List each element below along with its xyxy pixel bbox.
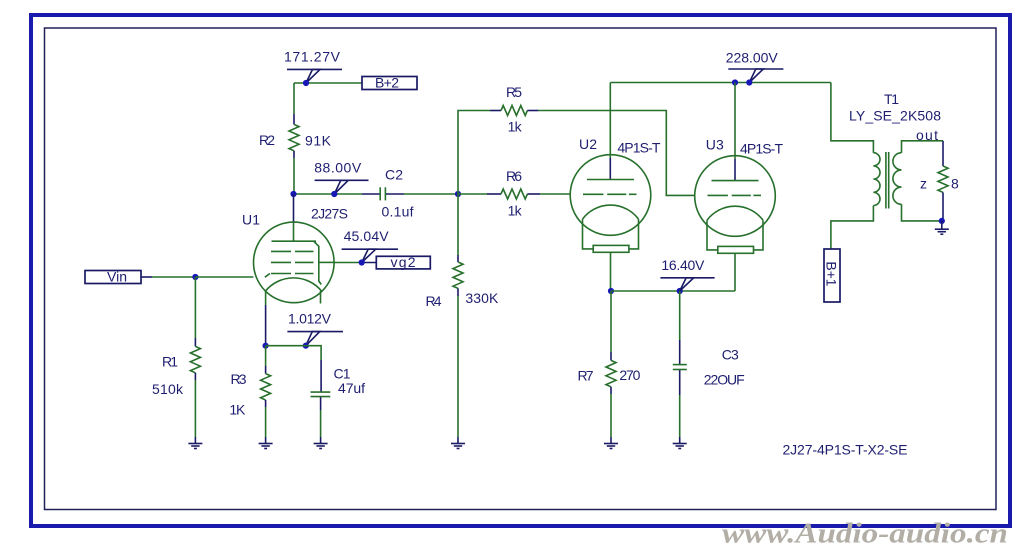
probe 1.012V line — [287, 331, 343, 333]
capacitor C2 plates — [379, 187, 381, 200]
wire Vin to node — [141, 276, 152, 278]
net label box B+2 — [362, 77, 417, 90]
wire from B+2 corner down to R2 — [293, 83, 295, 114]
resistor R5 lead left — [490, 110, 501, 112]
svg-text:R3: R3 — [231, 371, 247, 387]
probe 171.27V line — [287, 68, 342, 70]
tube U3 grid dashes — [708, 194, 728, 196]
svg-text:47uf: 47uf — [338, 380, 365, 396]
tube U1 plate — [293, 222, 295, 241]
svg-text:16.40V: 16.40V — [661, 257, 705, 273]
capacitor C1 lead bottom — [320, 397, 322, 410]
probe 16.40V line — [660, 277, 714, 279]
probe 16.40V flag — [680, 278, 694, 291]
svg-text:R1: R1 — [162, 354, 178, 370]
svg-text:45.04V: 45.04V — [344, 228, 390, 244]
wire vg2 — [334, 262, 359, 264]
resistor R6 lead left — [458, 193, 487, 195]
node dot 88.00V — [331, 191, 337, 197]
wire primary bottom to B+1 — [831, 206, 874, 250]
svg-text:R5: R5 — [506, 84, 522, 100]
resistor R2 lead top — [293, 114, 295, 124]
svg-text:270: 270 — [619, 367, 640, 383]
tube U3 plate lead from rail — [734, 83, 736, 160]
tube U1 envelope circle — [253, 222, 334, 303]
wire R6 to U2 grid — [540, 193, 570, 195]
tube U2 filament box — [593, 245, 629, 252]
capacitor C1 lead top — [320, 360, 322, 392]
resistor R4 lead top — [457, 255, 459, 262]
tube U1 plate lead from node — [293, 194, 295, 222]
tube U1 grid dashes row3 — [271, 273, 291, 275]
resistor R4 330K zigzag — [453, 262, 463, 288]
tube U3 cathode lead down — [734, 253, 736, 291]
resistor R5 1k zigzag — [501, 106, 527, 116]
svg-text:2J27S: 2J27S — [311, 206, 348, 222]
svg-text:2J27-4P1S-T-X2-SE: 2J27-4P1S-T-X2-SE — [783, 442, 908, 458]
tube U2 filament side leads — [583, 219, 594, 249]
svg-text:B+1: B+1 — [824, 261, 840, 286]
probe 88.00V flag — [334, 180, 348, 194]
probe 228.00V line — [728, 68, 783, 70]
wire C1 to ground — [320, 410, 322, 437]
resistor R3 lead top — [265, 346, 267, 366]
svg-text:out: out — [916, 127, 938, 143]
transformer T1 primary winding — [873, 153, 880, 206]
svg-text:Vin: Vin — [107, 269, 127, 285]
resistor R6 lead right — [527, 193, 540, 195]
tube U1 grid dashes row2 — [271, 261, 291, 263]
probe 1.012V flag — [306, 332, 320, 346]
svg-text:1.012V: 1.012V — [288, 311, 332, 327]
node dot 1.012V — [303, 343, 309, 349]
probe 228.00V flag — [749, 69, 763, 83]
node dot U3 plate — [732, 79, 738, 85]
svg-text:U3: U3 — [706, 137, 724, 153]
svg-text:z: z — [920, 176, 927, 192]
node dot C3 — [677, 288, 683, 294]
node dot R4 column — [455, 191, 461, 197]
node dot R7 — [608, 288, 614, 294]
tube U2 plate — [587, 179, 634, 181]
net label box vg2 — [376, 256, 430, 269]
svg-text:T1: T1 — [884, 91, 899, 107]
net label box Vin — [85, 271, 141, 284]
svg-text:510k: 510k — [152, 381, 184, 397]
tube U1 beam plate bracket — [314, 242, 321, 285]
node dot secondary ground — [939, 218, 945, 224]
ground under R7 — [604, 437, 618, 449]
tube U1 screen exit wire — [319, 261, 335, 263]
ground under R4 — [451, 437, 465, 449]
wire C2 to R4 node — [404, 193, 458, 195]
resistor R3 lead bottom — [265, 400, 267, 407]
svg-text:91K: 91K — [305, 133, 332, 149]
tube U2 plate lead from rail — [609, 83, 611, 159]
svg-text:0.1uf: 0.1uf — [382, 204, 414, 220]
wire node to U1 grid — [195, 276, 253, 278]
resistor R4 lead bottom — [457, 288, 459, 296]
ground under C3 — [673, 437, 687, 449]
svg-text:1k: 1k — [508, 203, 523, 219]
cathode bus wire — [611, 290, 735, 292]
wire node down to R1 — [194, 277, 196, 338]
tube U1 cathode lead — [265, 291, 267, 305]
capacitor C3 lead top — [679, 291, 681, 340]
resistor R7 270 zigzag — [606, 360, 616, 386]
probe 171.27V flag — [306, 69, 320, 83]
tube U1 grid slant lead — [265, 274, 270, 278]
resistor R2 lead bottom — [293, 151, 295, 158]
svg-text:R6: R6 — [506, 168, 522, 184]
wire node up to R5 — [458, 111, 490, 195]
svg-text:R4: R4 — [426, 293, 442, 309]
wire node to C2 — [294, 193, 362, 195]
tube U2 cathode dome — [583, 205, 639, 219]
tube U3 envelope circle — [695, 156, 776, 237]
capacitor C3 lead bottom — [679, 370, 681, 395]
node dot Vin — [192, 274, 198, 280]
svg-text:330K: 330K — [465, 290, 499, 306]
svg-text:R2: R2 — [259, 132, 275, 148]
top rail 228V — [610, 82, 831, 84]
probe 45.04V line — [342, 248, 398, 250]
wire secondary bottom — [902, 204, 944, 221]
resistor R7 lead bottom — [610, 387, 612, 394]
svg-text:88.00V: 88.00V — [314, 160, 362, 176]
node dot cathode R3 — [263, 343, 269, 349]
tube U2 envelope circle — [570, 155, 651, 236]
capacitor C1 plates — [311, 391, 331, 393]
node dot plate/R2 — [290, 191, 296, 197]
tube U1 cathode dome — [266, 278, 322, 291]
wire R2 to node — [293, 158, 295, 194]
svg-text:LY_SE_2K508: LY_SE_2K508 — [849, 108, 941, 124]
svg-text:1K: 1K — [229, 402, 246, 418]
resistor R2 91K zigzag — [289, 124, 299, 150]
svg-text:8: 8 — [951, 176, 959, 192]
tube U3 cathode dome — [707, 206, 763, 220]
wire C3 to ground — [679, 395, 681, 437]
svg-text:171.27V: 171.27V — [284, 49, 341, 65]
svg-text:B+2: B+2 — [375, 75, 399, 91]
resistor R1 lead bottom — [194, 373, 196, 380]
resistor R5 lead right — [527, 110, 538, 112]
node dot at B+2 — [303, 80, 309, 86]
tube U3 filament box — [718, 246, 754, 253]
tube U3 plate — [712, 180, 759, 182]
wire R5 to U3 grid — [538, 111, 694, 196]
svg-text:C3: C3 — [722, 347, 739, 363]
ground under R3 — [259, 437, 273, 449]
ground under C1 — [314, 437, 328, 449]
wire node down to R4 — [457, 194, 459, 255]
svg-text:4P1S-T: 4P1S-T — [617, 140, 660, 156]
wire secondary top to z8 — [902, 141, 944, 153]
ground under z8 — [935, 221, 949, 234]
wire R3 to ground — [265, 407, 267, 437]
resistor R1 lead top — [194, 338, 196, 346]
tube U2 grid dashes — [583, 193, 603, 195]
node dot vg2 — [359, 259, 365, 265]
tube U1 grid dashes row1 — [271, 250, 291, 252]
svg-text:22OUF: 22OUF — [704, 372, 745, 388]
svg-text:R7: R7 — [578, 368, 594, 384]
svg-text:228.00V: 228.00V — [726, 50, 779, 66]
probe 88.00V line — [315, 179, 369, 181]
node dot 228.00V — [746, 79, 752, 85]
transformer T1 core lines — [885, 152, 887, 209]
wire cathode row to C1 — [266, 346, 322, 360]
tube U3 filament side leads — [707, 220, 718, 250]
tube U2 cathode lead down — [610, 252, 612, 291]
ground under R1 — [188, 437, 202, 449]
wire R7 to ground — [610, 394, 612, 437]
resistor R6 1k zigzag — [501, 189, 527, 199]
resistor R7 lead top — [610, 291, 612, 352]
wire R1 to ground — [194, 380, 196, 437]
svg-text:1k: 1k — [508, 119, 523, 135]
transformer T1 secondary winding — [893, 153, 902, 205]
svg-text:vg2: vg2 — [391, 254, 416, 270]
svg-text:4P1S-T: 4P1S-T — [740, 141, 783, 157]
resistor R3 1K zigzag — [261, 374, 271, 400]
svg-text:U1: U1 — [242, 212, 260, 228]
wire B+2 horizontal — [294, 82, 362, 84]
svg-text:www.Audio-audio.cn: www.Audio-audio.cn — [722, 519, 1008, 548]
resistor z8 lead top — [942, 141, 944, 166]
wire rail to transformer primary — [831, 83, 874, 153]
capacitor C2 lead right — [386, 193, 404, 195]
wire R4 to ground — [457, 296, 459, 437]
resistor z8 lead bottom — [942, 192, 944, 221]
tube U1 cathode right stub — [320, 291, 322, 304]
svg-text:C2: C2 — [385, 167, 403, 183]
net label box B+1 — [824, 249, 840, 302]
capacitor C2 lead left — [362, 193, 380, 195]
capacitor C3 plates — [673, 364, 687, 366]
resistor z8 zigzag — [938, 166, 948, 192]
svg-text:U2: U2 — [579, 136, 597, 152]
probe 45.04V flag — [362, 249, 376, 262]
resistor R1 510k zigzag — [190, 346, 200, 372]
